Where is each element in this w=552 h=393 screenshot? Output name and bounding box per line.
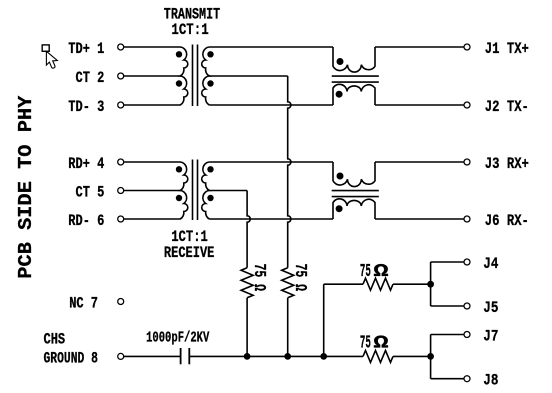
svg-text:TD+ 1: TD+ 1 xyxy=(68,40,104,58)
svg-text:PCB SIDE TO PHY: PCB SIDE TO PHY xyxy=(15,95,37,278)
svg-text:75: 75 xyxy=(360,262,371,282)
svg-text:75: 75 xyxy=(360,333,371,353)
svg-text:CT 5: CT 5 xyxy=(76,184,105,202)
svg-text:75 Ω: 75 Ω xyxy=(249,264,268,292)
svg-text:75 Ω: 75 Ω xyxy=(290,264,309,292)
svg-text:J2 TX-: J2 TX- xyxy=(485,98,529,116)
svg-text:J3 RX+: J3 RX+ xyxy=(485,155,529,173)
svg-text:Ω: Ω xyxy=(373,333,388,353)
svg-text:J4: J4 xyxy=(483,255,499,273)
svg-text:CT 2: CT 2 xyxy=(76,69,105,87)
svg-text:J7: J7 xyxy=(483,328,498,346)
svg-text:Ω: Ω xyxy=(373,262,388,282)
svg-text:J1 TX+: J1 TX+ xyxy=(485,40,529,58)
svg-text:J5: J5 xyxy=(483,299,498,317)
svg-text:NC 7: NC 7 xyxy=(69,295,98,313)
svg-text:RD+ 4: RD+ 4 xyxy=(68,155,104,173)
svg-text:TD- 3: TD- 3 xyxy=(68,98,104,116)
svg-text:J8: J8 xyxy=(483,372,498,390)
svg-text:J6 RX-: J6 RX- xyxy=(485,212,529,230)
svg-text:RECEIVE: RECEIVE xyxy=(164,244,215,262)
svg-text:CHS: CHS xyxy=(44,330,66,348)
svg-text:GROUND 8: GROUND 8 xyxy=(44,349,98,367)
svg-text:1CT:1: 1CT:1 xyxy=(171,21,208,39)
svg-text:RD- 6: RD- 6 xyxy=(68,212,104,230)
svg-text:1000pF/2KV: 1000pF/2KV xyxy=(146,330,209,347)
